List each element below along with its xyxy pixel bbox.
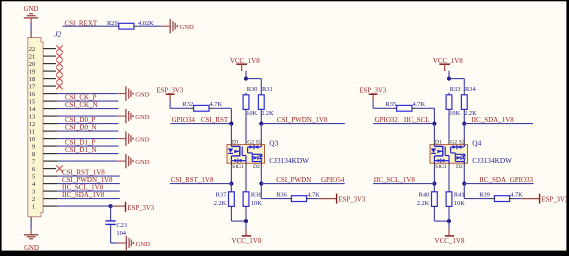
svg-text:10K: 10K xyxy=(251,200,262,207)
svg-text:15: 15 xyxy=(29,98,36,105)
svg-text:R35: R35 xyxy=(386,101,397,108)
svg-text:4.7K: 4.7K xyxy=(510,192,523,199)
svg-text:VCC_1V8: VCC_1V8 xyxy=(232,237,262,245)
svg-text:VCC_1V8: VCC_1V8 xyxy=(435,237,465,245)
svg-text:2.2K: 2.2K xyxy=(417,200,430,207)
svg-text:2.2K: 2.2K xyxy=(214,200,227,207)
svg-text:10K: 10K xyxy=(449,110,460,117)
svg-text:10: 10 xyxy=(29,136,36,143)
svg-text:D1: D1 xyxy=(435,139,442,145)
svg-text:10K: 10K xyxy=(454,200,465,207)
svg-text:D2: D2 xyxy=(456,164,463,170)
svg-text:R37: R37 xyxy=(216,192,227,199)
svg-text:IIC_SDA_1V8: IIC_SDA_1V8 xyxy=(62,191,105,199)
svg-text:21: 21 xyxy=(29,53,36,60)
svg-text:GPIO34: GPIO34 xyxy=(172,116,196,124)
svg-text:GPIO33: GPIO33 xyxy=(510,176,534,184)
svg-text:CSI_PWDN_1V8: CSI_PWDN_1V8 xyxy=(277,116,328,124)
svg-text:R38: R38 xyxy=(251,192,262,199)
svg-text:CSI_D1_N: CSI_D1_N xyxy=(65,146,97,154)
svg-text:R31: R31 xyxy=(262,86,273,93)
svg-text:CSI_PWDN: CSI_PWDN xyxy=(276,176,311,184)
svg-text:D2: D2 xyxy=(253,164,260,170)
svg-text:G1: G1 xyxy=(237,164,244,170)
svg-text:CSI_CK_N: CSI_CK_N xyxy=(65,101,98,109)
svg-text:GND: GND xyxy=(135,92,150,99)
svg-text:20: 20 xyxy=(29,61,36,68)
svg-text:R30: R30 xyxy=(247,86,258,93)
svg-text:IIC_SDA_1V8: IIC_SDA_1V8 xyxy=(471,116,514,124)
svg-text:104: 104 xyxy=(116,230,126,237)
svg-text:8: 8 xyxy=(32,151,35,158)
svg-text:ESP_3V3: ESP_3V3 xyxy=(542,197,569,204)
svg-text:4.7K: 4.7K xyxy=(413,101,426,108)
svg-text:17: 17 xyxy=(29,83,36,90)
svg-text:G2: G2 xyxy=(247,139,254,145)
svg-text:11: 11 xyxy=(29,128,35,135)
svg-text:CSI_RST_1V8: CSI_RST_1V8 xyxy=(171,176,214,184)
svg-text:C23: C23 xyxy=(116,222,127,229)
svg-text:1: 1 xyxy=(32,203,35,210)
svg-text:R32: R32 xyxy=(183,101,194,108)
svg-text:R33: R33 xyxy=(450,86,461,93)
svg-text:3: 3 xyxy=(32,188,35,195)
svg-text:CJ3134KDW: CJ3134KDW xyxy=(269,156,309,165)
svg-text:9: 9 xyxy=(32,143,35,150)
svg-text:Q3: Q3 xyxy=(269,139,278,148)
svg-text:CSI_D0_N: CSI_D0_N xyxy=(65,124,97,132)
svg-text:ESP_3V3: ESP_3V3 xyxy=(339,197,366,204)
svg-text:GND: GND xyxy=(135,137,150,144)
svg-text:IIC_SDA: IIC_SDA xyxy=(479,176,506,184)
svg-text:2.2K: 2.2K xyxy=(261,110,274,117)
svg-text:12: 12 xyxy=(29,121,36,128)
svg-text:IIC_SCL_1V8: IIC_SCL_1V8 xyxy=(374,176,416,184)
svg-text:S2: S2 xyxy=(256,139,262,145)
svg-text:4.7K: 4.7K xyxy=(210,101,223,108)
svg-text:GND: GND xyxy=(135,159,150,166)
svg-text:GND: GND xyxy=(24,6,39,13)
svg-text:22: 22 xyxy=(29,46,36,53)
svg-text:GND: GND xyxy=(180,24,195,31)
svg-text:14: 14 xyxy=(29,106,36,113)
svg-text:IIC_SCL: IIC_SCL xyxy=(404,116,430,124)
svg-text:R41: R41 xyxy=(454,192,465,199)
svg-text:4.7K: 4.7K xyxy=(307,192,320,199)
svg-text:2: 2 xyxy=(32,196,35,203)
svg-text:16: 16 xyxy=(29,91,36,98)
svg-text:GND: GND xyxy=(136,241,151,248)
svg-text:5: 5 xyxy=(32,173,35,180)
svg-text:Q4: Q4 xyxy=(472,139,481,148)
svg-text:18: 18 xyxy=(29,76,36,83)
svg-text:GPIO54: GPIO54 xyxy=(321,176,345,184)
svg-text:GPIO32: GPIO32 xyxy=(375,116,399,124)
svg-text:R36: R36 xyxy=(276,192,287,199)
svg-text:19: 19 xyxy=(29,68,36,75)
svg-text:13: 13 xyxy=(29,113,36,120)
svg-text:D1: D1 xyxy=(232,139,239,145)
svg-text:R39: R39 xyxy=(479,192,490,199)
svg-text:R34: R34 xyxy=(465,86,476,93)
svg-text:G2: G2 xyxy=(450,139,457,145)
svg-text:GND: GND xyxy=(135,114,150,121)
svg-text:S2: S2 xyxy=(459,139,465,145)
svg-text:J2: J2 xyxy=(54,29,61,38)
svg-text:CJ3134KDW: CJ3134KDW xyxy=(472,156,512,165)
svg-text:G1: G1 xyxy=(440,164,447,170)
svg-text:CSI_RST: CSI_RST xyxy=(201,116,229,124)
svg-text:ESP_3V3: ESP_3V3 xyxy=(127,205,154,212)
svg-text:10K: 10K xyxy=(246,110,257,117)
svg-text:R40: R40 xyxy=(419,192,430,199)
